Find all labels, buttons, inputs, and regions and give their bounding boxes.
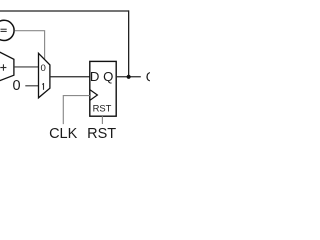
wire: comparator output to mux select (control, gray): [15, 31, 45, 60]
flip-flop clock triangle: [90, 90, 98, 101]
wire: adder output to mux input 0: [14, 66, 39, 68]
wire: CLK to clock input (control, gray): [63, 96, 90, 125]
wire: RST to flip-flop reset (control, gray): [101, 116, 103, 124]
svg-text:D Q: D Q: [90, 69, 113, 84]
wire: constant 0 to mux input 1: [25, 85, 38, 87]
mux pin label 1 (bar with small flag): [43, 83, 44, 90]
svg-text:O: O: [146, 69, 150, 84]
multiplexer M1 trapezoid: [39, 53, 50, 98]
wire: Q feedback vertical: [128, 10, 130, 76]
wire: Q feedback top horizontal: [0, 10, 129, 12]
adder U2 (+) hexagon clipped at left edge: [0, 49, 14, 83]
junction dot on Q output: [127, 75, 131, 79]
comparator U1 (=) circle: [0, 20, 14, 40]
svg-text:RST: RST: [93, 102, 112, 113]
label + inside adder (two bars): [0, 67, 6, 68]
svg-text:CLK: CLK: [49, 126, 78, 142]
label = inside comparator (two bars): [1, 29, 7, 30]
svg-text:RST: RST: [87, 126, 116, 142]
D flip-flop U3 body: [90, 61, 116, 116]
svg-text:0: 0: [12, 78, 20, 94]
svg-text:0: 0: [41, 63, 46, 74]
wire: Q output: [116, 76, 141, 78]
wire: mux output to D input: [50, 76, 90, 78]
